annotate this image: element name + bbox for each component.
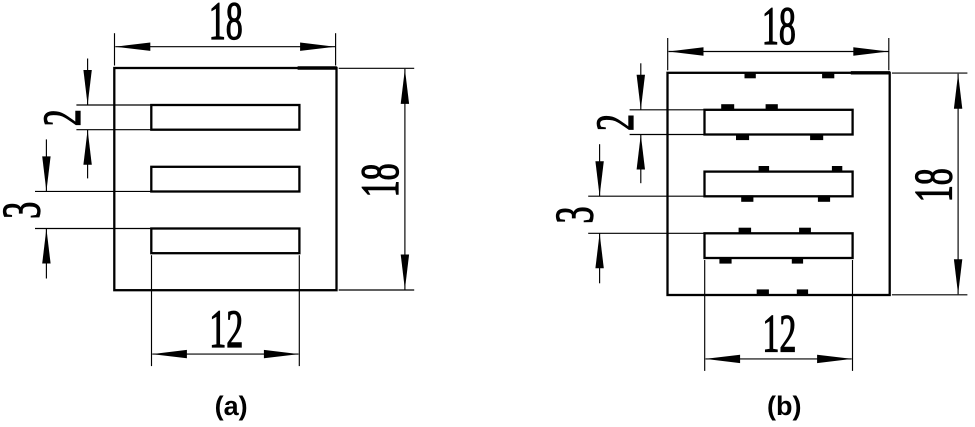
slot 2 (b) 12x2 rectangle [705,172,853,197]
top dimension 18 extension line left (b) [667,38,669,70]
dimension 2 extension line upper (a) [76,104,151,106]
svg-text:18: 18 [762,0,796,56]
slot 3 (b) 12x2 rectangle [705,233,853,258]
svg-text:12: 12 [209,299,243,359]
dimension 3 lower arrow tail (a) [45,229,47,279]
slot 1 (a) 12x2 rectangle [151,105,299,130]
electrode tabs below slot 3 (b) [719,257,731,263]
top dimension 18 left arrowhead (b) [669,47,704,55]
dimension 3 extension line lower (b) [588,232,705,234]
dimension 3 lower arrowhead pointing up (b) [595,233,603,268]
svg-text:(a): (a) [215,391,248,421]
dimension 2 lower arrowhead pointing up (a) [83,130,91,165]
dimension 3 lower arrow tail (b) [599,233,601,283]
dimension 2 extension line upper (b) [630,109,705,111]
thick segment on top edge of plate (b) [851,71,890,74]
right dimension 18 down arrowhead (b) [954,259,962,294]
svg-text:3: 3 [0,202,51,219]
svg-text:18: 18 [209,0,243,51]
svg-text:18: 18 [903,168,963,202]
dimension 2 extension line lower (b) [630,134,705,136]
dimension 3 extension line upper (b) [588,195,705,197]
plate outline (a) 18x18 square [114,68,336,290]
electrode tabs on bottom edge of plate (b) [757,289,769,295]
top dimension 18 dimension line (a) [115,46,335,48]
electrode tabs above slot 3 (b) [739,228,752,234]
right dimension 18 dimension line (b) [957,74,959,295]
bottom dimension 12 extension line left (b) [704,260,706,371]
svg-text:12: 12 [762,304,796,364]
bottom dimension 12 right arrowhead (b) [817,355,852,363]
dimension 2 lower arrow tail (a) [87,130,89,179]
right dimension 18 extension line top (b) [892,72,968,74]
bottom dimension 12 extension line right (a) [298,255,300,366]
bottom dimension 12 left arrowhead (b) [705,355,740,363]
dimension 3 upper arrow tail (b) [599,144,601,196]
thick segment on top edge of plate (a) [298,66,337,69]
bottom dimension 12 right arrowhead (a) [264,350,299,358]
svg-text:2: 2 [585,114,645,131]
top dimension 18 right arrowhead (b) [853,47,888,55]
top dimension 18 extension line left (a) [114,33,116,65]
electrode tabs on top edge of plate (b) [745,72,756,78]
top dimension 18 extension line right (b) [888,38,890,70]
dimension 3 lower arrowhead pointing up (a) [42,229,50,264]
plate outline (b) 18x18 square [668,73,890,295]
bottom dimension 12 left arrowhead (a) [152,350,187,358]
bottom dimension 12 dimension line (b) [706,358,852,360]
svg-text:18: 18 [350,163,410,197]
right dimension 18 up arrowhead (a) [401,69,409,104]
electrode tabs below slot 1 (b) [736,134,749,140]
dimension 2 extension line lower (a) [76,129,151,131]
dimension 2 upper arrow tail (a) [87,59,89,106]
electrode tabs above slot 2 (b) [759,166,770,172]
electrode tabs below slot 2 (b) [741,195,753,201]
right dimension 18 down arrowhead (a) [401,255,409,290]
dimension 2 upper arrowhead pointing down (b) [637,75,645,110]
dimension 3 extension line lower (a) [35,228,152,230]
dimension 2 lower arrow tail (b) [640,135,642,184]
dimension 2 upper arrow tail (b) [640,63,642,110]
dimension 2 upper arrowhead pointing down (a) [83,70,91,105]
dimension 3 upper arrowhead pointing down (b) [595,161,603,196]
slot 1 (b) 12x2 rectangle [705,110,853,135]
top dimension 18 left arrowhead (a) [115,43,150,51]
right dimension 18 dimension line (a) [404,69,406,290]
right dimension 18 up arrowhead (b) [954,74,962,109]
bottom dimension 12 extension line right (b) [852,260,854,371]
svg-text:2: 2 [32,109,92,126]
right dimension 18 extension line bottom (b) [892,294,968,296]
slot 3 (a) 12x2 rectangle [151,229,299,254]
dimension 2 lower arrowhead pointing up (b) [637,135,645,170]
top dimension 18 extension line right (a) [335,33,337,65]
bottom dimension 12 dimension line (a) [152,353,298,355]
dimension 3 upper arrow tail (a) [45,139,47,191]
top dimension 18 right arrowhead (a) [300,43,335,51]
svg-text:(b): (b) [767,391,801,421]
svg-text:3: 3 [545,206,605,223]
dimension 3 extension line upper (a) [35,190,152,192]
slot 2 (a) 12x2 rectangle [151,167,299,192]
bottom dimension 12 extension line left (a) [151,255,153,366]
right dimension 18 extension line bottom (a) [339,289,415,291]
dimension 3 upper arrowhead pointing down (a) [42,156,50,191]
right dimension 18 extension line top (a) [339,67,415,69]
electrode tabs above slot 1 (b) [721,104,734,110]
top dimension 18 dimension line (b) [669,51,889,53]
